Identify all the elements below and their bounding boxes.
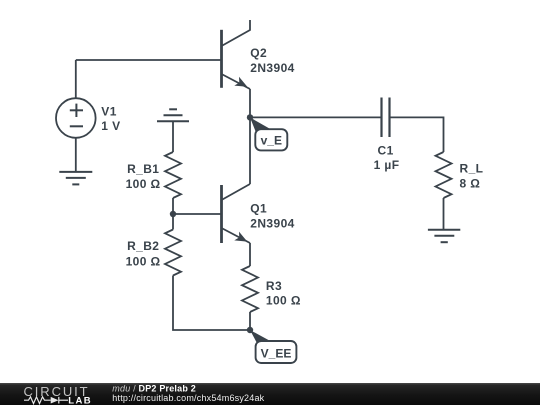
wire R_B1 bottom (172, 198, 174, 214)
node B junction dot (170, 211, 176, 217)
svg-text:R3: R3 (266, 279, 282, 293)
node flag V_EE (250, 330, 296, 363)
wire inverted ground to R_B1 (172, 121, 174, 152)
svg-text:8 Ω: 8 Ω (460, 177, 481, 191)
svg-text:Q1: Q1 (250, 202, 267, 216)
wire node v_E down to Q1 collector (249, 117, 251, 184)
resistor R_B1 (165, 152, 181, 198)
wire R3 to node V_EE (249, 312, 251, 330)
svg-text:100 Ω: 100 Ω (266, 293, 301, 307)
svg-text:R_B2: R_B2 (127, 239, 159, 253)
svg-text:1 µF: 1 µF (374, 158, 400, 172)
svg-text:v_E: v_E (261, 133, 282, 147)
node flag v_E (250, 117, 287, 150)
svg-text:http://circuitlab.com/chx54m6s: http://circuitlab.com/chx54m6sy24ak (112, 393, 264, 403)
svg-text:LAB: LAB (68, 395, 92, 405)
wire C1 to R_L (390, 117, 444, 152)
voltage source V1 (56, 98, 96, 138)
wire R_L to ground (443, 198, 445, 230)
ground under V1 (59, 172, 92, 185)
svg-text:R_L: R_L (460, 162, 484, 176)
resistor R3 (242, 266, 258, 312)
svg-text:2N3904: 2N3904 (250, 61, 294, 75)
svg-text:100 Ω: 100 Ω (126, 255, 161, 269)
wire node B to R_B2 (172, 214, 174, 230)
svg-text:V1: V1 (101, 105, 116, 119)
Q2 emitter arrow (234, 77, 247, 87)
wire Q2 emitter to node v_E (249, 89, 251, 117)
logo resistor+diode glyph (24, 397, 68, 404)
svg-text:Q2: Q2 (250, 46, 267, 60)
wire top rail V1 to Q2 base (76, 59, 222, 61)
node v_E junction dot (247, 114, 253, 120)
svg-text:2N3904: 2N3904 (250, 217, 294, 231)
transistor Q2 (222, 20, 251, 89)
wire Q1 base (173, 213, 222, 215)
wire bottom rail (173, 276, 250, 331)
resistor R_B2 (165, 230, 181, 276)
transistor Q1 (222, 184, 251, 243)
svg-text:C1: C1 (378, 143, 394, 157)
wire V1 bottom lead (75, 138, 77, 172)
capacitor C1 (382, 98, 390, 138)
Q1 emitter arrow (234, 232, 247, 242)
wire V1 top lead (75, 60, 77, 98)
wire node v_E to C1 (250, 116, 382, 118)
wire Q1 emitter to R3 (249, 243, 251, 266)
svg-text:V_EE: V_EE (261, 346, 292, 360)
resistor R_L (436, 152, 452, 198)
node V_EE junction dot (247, 327, 253, 333)
ground under R_L (428, 230, 460, 243)
svg-text:100 Ω: 100 Ω (126, 177, 161, 191)
svg-text:R_B1: R_B1 (127, 162, 159, 176)
footer bar (0, 383, 540, 405)
inverted ground symbol above R_B1 (157, 109, 189, 121)
svg-text:1 V: 1 V (101, 119, 120, 133)
